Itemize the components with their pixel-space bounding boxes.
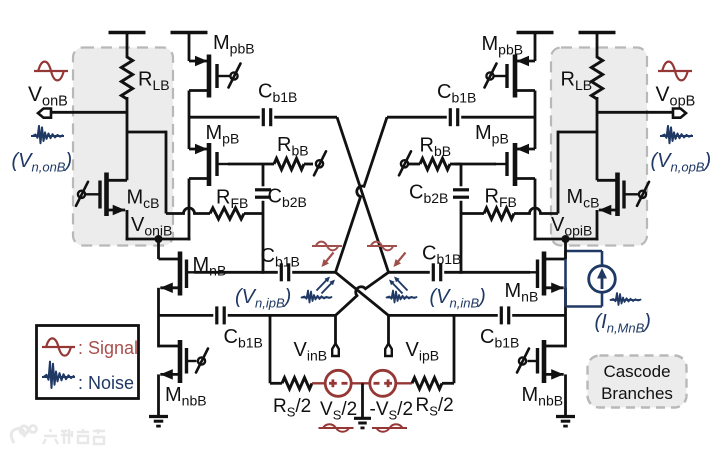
wire output branch corner (right)	[558, 131, 597, 214]
wire output branch corner (left)	[127, 131, 166, 214]
label M_nbB right	[522, 384, 564, 409]
label V_opB	[656, 83, 696, 110]
ground right	[556, 417, 575, 427]
terminal V_onB	[38, 109, 51, 118]
wire between sources (red)	[351, 382, 370, 384]
wire M_cB source down to V_oniB (left)	[126, 210, 129, 240]
label M_nB left	[193, 254, 227, 279]
wire diagonal N1 to V_ipB node (lower x)	[336, 272, 389, 315]
gate bias terminal of M_pbB left	[229, 64, 241, 88]
wire diagonal N2 to V_inB node (with crossover hump)	[336, 272, 389, 315]
label R_FB right	[485, 186, 517, 211]
wire right source branch up	[442, 315, 454, 383]
noise icon at V_opB	[660, 126, 693, 143]
signal arrow into node N2	[394, 253, 406, 268]
label M_pB left	[206, 122, 240, 147]
wire C_b2B down to gate node (right)	[460, 201, 463, 274]
svg-text:: Noise: : Noise	[78, 373, 134, 393]
voltage source V_S/2	[325, 370, 351, 396]
label V_opiB	[551, 214, 592, 239]
label (V_n,opB)	[651, 150, 712, 175]
wire V_oniB horizontal	[126, 238, 191, 241]
resistor R_S/2 left	[282, 378, 312, 389]
gate bias terminal of R_bB left	[314, 151, 326, 175]
wire R_bB to M_pB gate (right)	[455, 163, 496, 166]
wire R_FB to C_b2B node (right)	[461, 212, 484, 215]
label M_cB left	[127, 187, 160, 212]
svg-text:Cascode: Cascode	[603, 362, 670, 381]
label V_inB	[294, 339, 328, 364]
noise icon at V_onB	[31, 126, 64, 143]
terminal V_ipB	[385, 344, 392, 357]
label R_FB left	[216, 187, 248, 212]
wire diagonal top-left to node N2	[337, 117, 389, 272]
legend signal text	[78, 338, 138, 358]
signal icon at V_onB	[34, 62, 68, 81]
label M_pB right	[475, 122, 509, 147]
wire diagonal top-right to node N1 (with crossover hump)	[336, 117, 388, 272]
node V_oniB junction dot	[155, 235, 163, 243]
transistor M_cB right	[597, 173, 638, 217]
signal icon under V_S/2	[319, 424, 354, 432]
wire M_nbB source to ground (left)	[157, 374, 160, 416]
label C_b1B lower-right	[480, 326, 519, 351]
VDD rail above M_pbB left	[171, 33, 208, 62]
svg-text:Branches: Branches	[601, 384, 673, 403]
terminal V_inB	[332, 344, 339, 357]
wire M_nB source row to V_inB node (left)	[159, 314, 336, 317]
label C_b1B top-right	[437, 81, 476, 106]
label (I_n,MnB)	[595, 311, 651, 336]
legend box	[37, 326, 139, 399]
wire R_bB to bias terminal (right)	[408, 163, 420, 166]
gate bias terminal of M_cB left	[76, 182, 88, 206]
capacitor C_b1B lower-right	[501, 306, 508, 324]
signal icon at node N1	[312, 242, 342, 251]
wire left source branch down	[270, 315, 282, 383]
label M_pbB left	[213, 32, 255, 57]
wire gate node down to C_b2B (right)	[460, 164, 463, 186]
VDD rail above R_LB right	[579, 33, 616, 59]
label R_LB left	[138, 69, 170, 94]
transistor M_cB left	[86, 173, 127, 217]
label (V_n,onB)	[12, 150, 73, 175]
wire R_LB bottom to M_cB drain (left output node)	[126, 97, 129, 180]
label C_b1B gate-left	[261, 245, 300, 270]
transistor M_nB right	[528, 252, 566, 296]
gate bias terminal of M_nbB left	[196, 349, 208, 373]
wire V_opiB horizontal	[534, 238, 599, 241]
label C_b1B lower-left	[224, 326, 263, 351]
transistor M_nbB left	[159, 340, 197, 383]
wire M_pB gate to R_bB node (left)	[228, 163, 263, 166]
signal icon at V_opB	[658, 62, 692, 81]
wire M_nbB source to ground (right)	[564, 374, 567, 416]
label M_nbB left	[165, 384, 207, 409]
wire V_oniB down to M_nB drain	[157, 239, 160, 259]
watermark logo	[11, 426, 36, 443]
wire V_ipB node to M_nB source row (right)	[389, 314, 566, 317]
label V_onB	[28, 83, 68, 110]
resistor R_S/2 right	[412, 378, 442, 389]
signal icon at node N2	[367, 242, 397, 251]
label M_cB right	[567, 186, 600, 211]
gate bias terminal of R_bB right	[399, 151, 411, 175]
cascode branch dashed box (left)	[73, 48, 173, 246]
gate bias terminal of M_nbB right	[517, 349, 529, 373]
transistor M_pbB right	[494, 55, 535, 98]
wire M_pB drain down to V_opiB (right)	[534, 179, 537, 241]
label V_ipB	[406, 339, 440, 364]
capacitor C_b2B left	[255, 190, 271, 197]
terminal V_opB	[673, 109, 686, 118]
resistor R_FB left	[210, 208, 244, 219]
resistor R_bB left	[263, 158, 304, 169]
ground center	[354, 418, 371, 428]
wire C_b1B top-right	[387, 116, 535, 119]
label V_S/2	[320, 399, 357, 423]
resistor R_bB right	[420, 158, 461, 169]
label -V_S/2	[370, 399, 414, 423]
wire R_S to V_S source (red, left)	[312, 382, 325, 384]
noise arrows into node N1	[317, 277, 336, 294]
transistor M_pB left	[189, 143, 230, 186]
wire R_LB bottom to M_cB drain (right output node)	[596, 97, 599, 180]
label R_S/2 left	[273, 396, 311, 420]
wire V_inB stub	[334, 315, 337, 344]
legend noise icon	[42, 362, 75, 388]
wire M_nB gate to node (left)	[194, 271, 336, 274]
capacitor C_b2B right	[453, 190, 469, 197]
noise icon at I_n,MnB	[611, 293, 641, 305]
node V_opiB junction dot	[562, 235, 570, 243]
label C_b1B gate-right	[422, 243, 461, 268]
cascode branch dashed box (right)	[551, 48, 647, 246]
wire M_pB drain down to V_oniB (left)	[188, 179, 191, 241]
signal icon under -V_S/2	[372, 424, 407, 432]
noise arrows into node N2	[389, 277, 408, 294]
wire output node to V_opB terminal (right)	[597, 111, 673, 114]
transistor M_pB right	[494, 143, 535, 186]
wire C_b2B down to R_FB node (left)	[262, 201, 265, 274]
cascode branches label box	[588, 356, 687, 408]
label M_pbB right	[482, 33, 524, 58]
capacitor C_b1B on M_nB gate (right)	[433, 263, 440, 281]
signal arrow into node N1	[322, 253, 334, 268]
wire M_cB source down to V_opiB (right)	[596, 210, 599, 240]
noise icon at node N1	[302, 291, 332, 303]
VDD rail above R_LB left	[109, 33, 146, 59]
wire M_nB source down (left)	[157, 288, 160, 348]
wire R_bB to bias terminal (left)	[304, 163, 313, 166]
legend signal icon	[42, 338, 75, 355]
wire output node to V_onB terminal (left)	[51, 111, 127, 114]
label C_b1B top-left	[258, 80, 297, 105]
voltage source -V_S/2	[370, 370, 396, 396]
VDD rail above M_pbB right	[517, 33, 554, 62]
wire gate node down to C_b2B (left)	[262, 164, 265, 186]
label (V_n,ipB)	[235, 286, 291, 311]
wire R_FB to C_b2B node (left)	[244, 212, 263, 215]
svg-text:: Signal: : Signal	[78, 338, 138, 358]
wire source midpoint to ground	[361, 383, 364, 418]
legend noise text	[78, 373, 134, 393]
wire V_opiB down to M_nB drain	[564, 239, 567, 259]
transistor M_pbB left	[189, 55, 230, 98]
noise icon at node N2	[387, 291, 417, 303]
capacitor C_b1B on M_nB gate (left)	[281, 263, 288, 281]
capacitor C_b1B lower-left	[217, 306, 224, 324]
resistor R_LB right	[591, 57, 602, 99]
label R_bB left	[277, 134, 309, 159]
wire C_b1B top-left	[189, 116, 337, 119]
wire M_pbB drain to C_b1B node (right)	[534, 91, 537, 150]
wire M_pbB drain to C_b1B node (left)	[188, 91, 191, 150]
label C_b2B right	[409, 182, 448, 207]
label R_bB right	[420, 135, 452, 160]
gate bias terminal of M_cB right	[637, 182, 649, 206]
resistor R_LB left	[121, 57, 132, 99]
wire M_nB source down (right)	[564, 288, 567, 348]
label R_LB right	[561, 69, 593, 94]
wire V_S source to R_S (red, right)	[396, 382, 412, 384]
label R_S/2 right	[416, 395, 454, 419]
ground left	[149, 417, 168, 427]
resistor R_FB right	[484, 208, 514, 219]
transistor M_nB left	[159, 252, 197, 296]
label C_b2B left	[268, 186, 307, 211]
wire node N2 to M_nB gate (right)	[389, 271, 531, 274]
label V_oniB	[131, 214, 172, 239]
capacitor C_b1B top-right	[450, 108, 457, 126]
wire V_ipB stub	[387, 315, 390, 344]
watermark text	[43, 429, 105, 444]
capacitor C_b1B top-left	[263, 108, 270, 126]
transistor M_nbB right	[528, 340, 566, 383]
wire + crossover hump to R_FB (left)	[166, 208, 210, 213]
label (V_n,inB)	[430, 286, 486, 311]
label M_nB right	[505, 280, 539, 305]
noise current source I_n,MnB loop	[566, 251, 616, 307]
gate bias terminal of M_pbB right	[485, 64, 497, 88]
wire + crossover hump from R_FB (right)	[514, 208, 558, 213]
